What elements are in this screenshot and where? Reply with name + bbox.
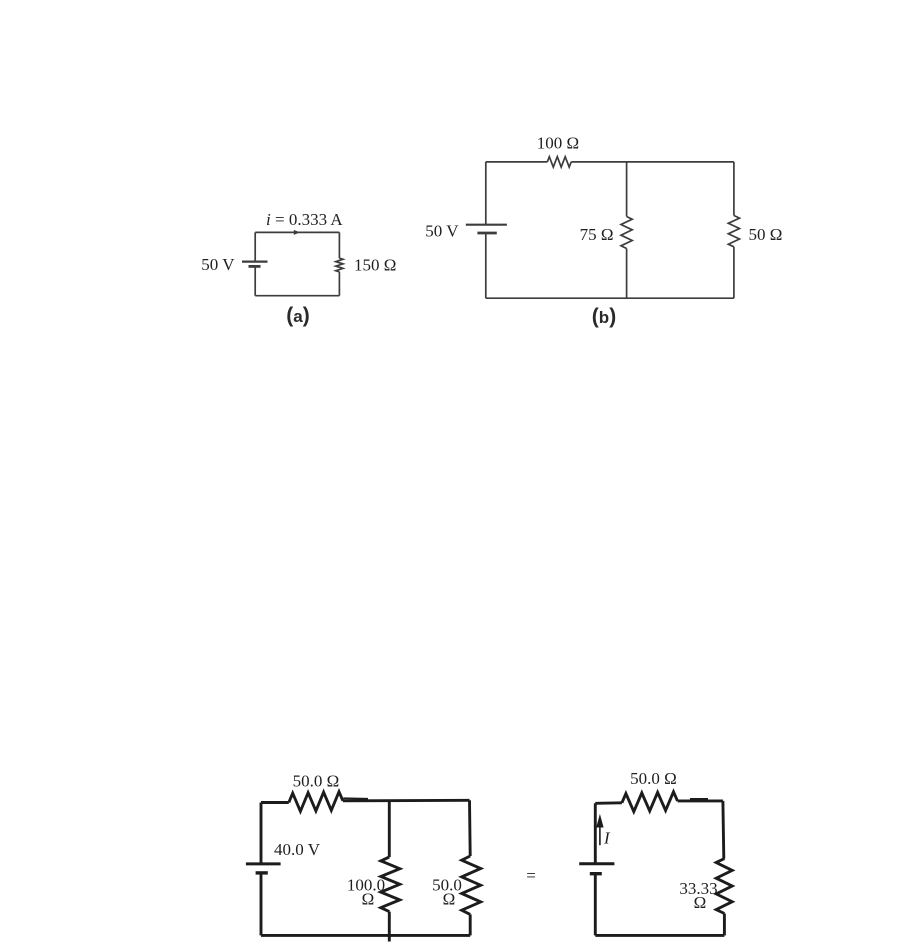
battery short plate (d) xyxy=(590,872,602,875)
label 50 V (a) xyxy=(201,255,235,274)
svg-text:I: I xyxy=(603,829,611,848)
battery V1 50V short plate xyxy=(249,265,261,268)
wire top right segment (c) xyxy=(343,799,470,802)
wire right lower (a) xyxy=(338,272,340,296)
svg-text:(a): (a) xyxy=(286,304,309,327)
label 50 ohm (b) xyxy=(749,225,783,244)
circuit (d) bottom-right xyxy=(579,792,732,936)
battery 50V short plate (b) xyxy=(477,232,496,235)
circuit (a) xyxy=(242,230,343,296)
battery 40.0V long plate (c) xyxy=(246,862,281,865)
resistor 50.0ohm (d) xyxy=(622,792,678,812)
svg-text:40.0 V: 40.0 V xyxy=(274,840,321,859)
svg-text:Ω: Ω xyxy=(362,890,375,909)
wire middle upper (b) xyxy=(626,162,628,217)
wire top right segment (d) xyxy=(678,799,723,802)
svg-text:50.0 Ω: 50.0 Ω xyxy=(293,772,340,791)
svg-text:50 V: 50 V xyxy=(201,255,235,274)
svg-text:50 V: 50 V xyxy=(425,222,459,241)
wire middle lower (c) xyxy=(388,912,391,942)
svg-text:(b): (b) xyxy=(592,305,616,328)
resistor 50ohm (b) xyxy=(728,216,739,247)
wire left lower (b) xyxy=(485,233,487,298)
svg-text:Ω: Ω xyxy=(443,890,456,909)
wire right upper (b) xyxy=(733,162,735,216)
label 50.0 ohm (c) xyxy=(293,772,340,791)
wire right lower (d) xyxy=(723,914,726,936)
svg-text:50.0 Ω: 50.0 Ω xyxy=(630,769,677,788)
wire overlap stroke (c) xyxy=(344,797,369,800)
wire middle upper (c) xyxy=(388,800,391,857)
wire bottom (a) xyxy=(255,295,339,297)
resistor R 150ohm xyxy=(336,258,343,272)
svg-text:50 Ω: 50 Ω xyxy=(749,225,783,244)
label 100.0 (c) xyxy=(347,876,385,895)
resistor 100ohm xyxy=(547,157,571,167)
wire left upper (a) xyxy=(254,232,256,261)
label (a) xyxy=(286,304,309,327)
wire right upper (d) xyxy=(723,801,725,859)
wire left upper (b) xyxy=(485,162,487,225)
circuit (c) bottom-left xyxy=(246,792,481,942)
label 150 ohm (a) xyxy=(354,256,396,275)
wire overlap stroke (d) xyxy=(690,798,708,800)
equals sign xyxy=(526,866,536,885)
svg-text:i = 0.333 A: i = 0.333 A xyxy=(266,210,343,229)
label 33.33 (d) xyxy=(679,879,717,898)
wire bottom (d) xyxy=(595,934,724,937)
label 75 ohm (b) xyxy=(580,225,614,244)
label ohm under 100.0 (c) xyxy=(362,890,375,909)
wire left lower (c) xyxy=(260,873,263,936)
label (b) xyxy=(592,305,616,328)
wire top left segment (b) xyxy=(486,161,548,163)
wire left lower (d) xyxy=(594,874,597,936)
label 50.0 ohm (d) xyxy=(630,769,677,788)
battery V1 50V long plate xyxy=(242,261,268,263)
battery 40.0V short plate (c) xyxy=(256,871,268,874)
battery long plate (d) xyxy=(579,862,614,865)
label I (d) xyxy=(603,829,611,848)
wire right upper (a) xyxy=(338,232,340,258)
label i = 0.333 A xyxy=(266,210,343,229)
svg-text:=: = xyxy=(526,866,536,885)
label 50.0 (c) xyxy=(432,876,462,895)
resistor 50.0ohm (c) xyxy=(289,792,343,812)
resistor 50.0ohm vertical (c) xyxy=(462,856,481,914)
battery 50V long plate (b) xyxy=(466,224,507,226)
current arrow I (d) xyxy=(596,814,603,845)
svg-text:75 Ω: 75 Ω xyxy=(580,225,614,244)
label 40.0 V (c) xyxy=(274,840,321,859)
wire right upper (c) xyxy=(468,800,472,856)
wire right lower (b) xyxy=(733,247,735,298)
wire top right segment (b) xyxy=(571,161,734,163)
resistor 75ohm xyxy=(621,217,632,249)
resistor 100.0ohm (c) xyxy=(381,857,400,912)
wire bottom (c) xyxy=(261,934,470,937)
current arrow i xyxy=(294,230,300,235)
label ohm under 33.33 (d) xyxy=(694,893,707,912)
svg-text:100 Ω: 100 Ω xyxy=(537,134,579,153)
wire left upper (c) xyxy=(260,803,263,864)
wire top left segment (d) xyxy=(595,801,622,804)
resistor 33.33ohm (d) xyxy=(716,859,732,914)
wire middle lower (b) xyxy=(626,249,628,299)
circuit (b) xyxy=(466,157,740,299)
label 100 ohm (b) xyxy=(537,134,579,153)
wire left upper (d) xyxy=(594,803,597,864)
wire left lower (a) xyxy=(254,266,256,295)
wire top (a) xyxy=(255,231,339,233)
svg-text:150 Ω: 150 Ω xyxy=(354,256,396,275)
label 50 V (b) xyxy=(425,222,459,241)
wire top left segment (c) xyxy=(261,801,289,804)
svg-text:Ω: Ω xyxy=(694,893,707,912)
label ohm under 50.0 (c) xyxy=(443,890,456,909)
wire bottom (b) xyxy=(486,297,734,299)
wire right lower (c) xyxy=(469,914,472,935)
